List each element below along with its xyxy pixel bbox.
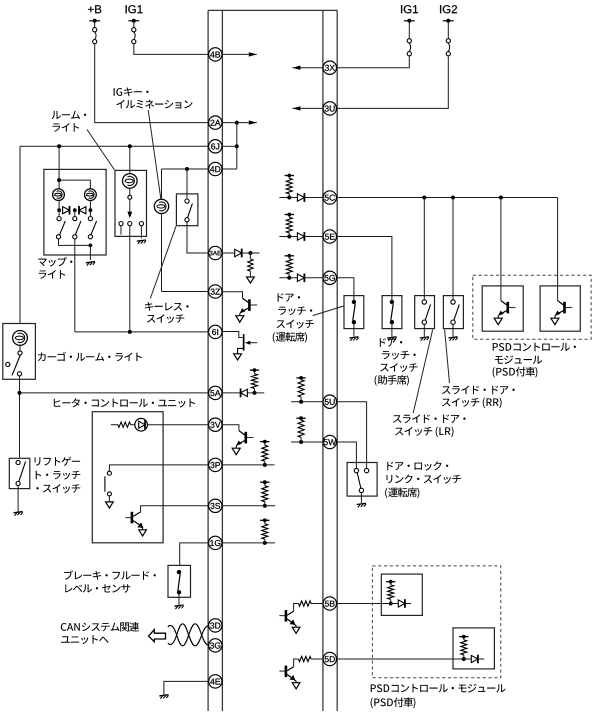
wire +B to 2A xyxy=(95,44,210,123)
slide door switch (LR) contacts xyxy=(422,300,431,337)
label PSD control module (lower) xyxy=(371,684,506,709)
junction block left bus xyxy=(208,10,222,711)
map light bottom wiring xyxy=(59,239,93,260)
label room light xyxy=(52,111,115,170)
IG key illumination lamp xyxy=(154,199,168,213)
room light lamp xyxy=(123,170,138,188)
door latch switch (passenger) box xyxy=(382,296,402,329)
heater transistor open arrow xyxy=(139,530,147,536)
door latch switch (driver) box xyxy=(344,296,364,329)
room light contacts xyxy=(119,222,144,239)
PSD lower unit 1 resistor and diode xyxy=(386,580,411,608)
slide door switch (RR) ground xyxy=(448,337,457,341)
label PSD control module (upper) xyxy=(493,343,576,378)
label door latch switch (driver) xyxy=(273,293,344,343)
label door latch switch (passenger) xyxy=(375,338,418,386)
CAN direction arrow xyxy=(149,630,166,642)
wire 5U row xyxy=(337,402,366,469)
transistor at 3V xyxy=(222,425,253,455)
transistor at 3Z xyxy=(222,292,257,323)
CAN twisted pair wire B xyxy=(168,624,208,646)
cargo room light switch xyxy=(6,345,22,376)
wire lamp to 3Z xyxy=(162,214,210,292)
heater control unit box xyxy=(92,412,163,543)
connector pin 5C xyxy=(323,191,336,204)
label slide door switch (RR) xyxy=(442,330,515,409)
power terminal IG2 xyxy=(440,5,457,56)
connector pin 5B xyxy=(323,597,336,610)
map light switch left xyxy=(56,210,65,239)
label heater control unit xyxy=(54,398,195,407)
3P pullup resistor xyxy=(222,440,274,467)
label map light xyxy=(38,257,72,279)
heater transistor xyxy=(125,506,209,530)
transistor at 6I (PNP) xyxy=(222,332,257,354)
map light switch middle xyxy=(73,210,81,239)
wire 6I row xyxy=(75,330,209,334)
wire 2A-6J-4D jumper xyxy=(222,120,256,169)
map light switch right xyxy=(88,210,96,239)
room light box xyxy=(115,170,147,236)
connector pin 4B xyxy=(209,48,222,61)
connector pin 6J xyxy=(209,140,222,153)
wire 5W row xyxy=(337,442,356,468)
connector pin 5U xyxy=(323,395,336,408)
wire 4E to ground xyxy=(164,681,209,694)
connector pin 5D xyxy=(323,652,336,665)
map light diode right xyxy=(73,201,92,215)
PSD lower unit 2 resistor and diode xyxy=(459,635,484,664)
slide door switch (RR) contacts xyxy=(451,300,460,337)
connector pin 3Z xyxy=(209,285,222,298)
5G pullup and diode xyxy=(279,254,323,282)
power terminal IG1 (right) xyxy=(401,5,418,56)
label brake fluid level sensor xyxy=(64,570,156,593)
slide door switch (LR) ground xyxy=(420,337,429,341)
wire room light to 6I row xyxy=(129,226,131,332)
heater switch open arrow xyxy=(106,502,114,508)
PSD control module (upper) dashed box xyxy=(473,275,591,339)
wire 5B to PSD module xyxy=(337,603,391,605)
connector pin 1G xyxy=(209,536,222,549)
liftgate latch switch box xyxy=(9,458,30,488)
arrow output 4B xyxy=(222,52,256,56)
4E ground xyxy=(159,695,168,699)
label keyless switch xyxy=(145,226,189,323)
door latch switch (driver) contacts xyxy=(352,300,356,337)
keyless switch feed xyxy=(186,169,188,199)
1G pullup resistor xyxy=(222,518,275,545)
liftgate latch switch contacts xyxy=(16,460,26,485)
arrow output 3X xyxy=(292,66,323,70)
door lock link switch contacts xyxy=(354,468,369,503)
5A diode and pullup resistor xyxy=(222,368,264,397)
slide door switch (RR) box xyxy=(443,296,463,329)
wire IG1 to 4B xyxy=(134,44,210,55)
connector pin 3V xyxy=(209,418,222,431)
3AE diode and resistor xyxy=(222,249,259,277)
5U pullup resistor xyxy=(291,376,323,404)
wire 5E row xyxy=(337,237,392,301)
heater LED indicator xyxy=(111,418,209,431)
map light ground xyxy=(86,262,95,266)
wire 5D to PSD module xyxy=(337,658,464,660)
keyless switch contacts xyxy=(185,199,193,222)
door lock link switch box xyxy=(347,463,377,497)
power terminal IG1 (left) xyxy=(126,5,143,44)
5W pullup resistor xyxy=(291,416,323,444)
5E pullup and diode xyxy=(279,213,323,241)
liftgate switch ground xyxy=(14,512,23,516)
connector pin 4D xyxy=(209,162,222,175)
connector pin 4E xyxy=(209,675,222,688)
label liftgate latch switch xyxy=(35,457,81,494)
wire 5A row xyxy=(20,392,210,394)
door latch switch (passenger) contacts xyxy=(390,300,394,337)
label slide door switch (LR) xyxy=(393,330,466,438)
brake fluid sensor ground xyxy=(174,605,183,609)
PSD upper transistor 1 xyxy=(494,301,515,325)
PSD upper unit box 1 xyxy=(482,286,523,331)
door lock link switch ground xyxy=(357,503,366,507)
PSD upper unit box 2 xyxy=(540,286,580,331)
wire IG1 to 3X xyxy=(337,56,410,68)
connector pin 5G xyxy=(323,271,336,284)
brake fluid level sensor contacts xyxy=(177,570,181,605)
CAN twisted pair wire A xyxy=(168,624,208,646)
power terminal +B xyxy=(88,5,101,43)
wire liftgate switch to ground xyxy=(17,486,19,512)
map light lamp right xyxy=(85,189,97,201)
label IG key illumination xyxy=(114,88,193,199)
wire 1G to brake sensor xyxy=(180,543,209,566)
keyless switch box xyxy=(176,194,198,226)
label CAN system units xyxy=(61,622,139,644)
map light diode left xyxy=(57,201,69,215)
cargo room light box xyxy=(3,324,36,380)
door latch switch (driver) ground xyxy=(349,337,358,341)
PSD lower unit box 1 xyxy=(381,574,422,615)
wire IG2 to 3U xyxy=(337,56,449,109)
brake fluid level sensor box xyxy=(168,565,191,597)
5C pullup and diode xyxy=(279,174,323,202)
wire 5G row xyxy=(337,278,354,300)
connector pin 5A xyxy=(209,386,222,399)
map light box xyxy=(44,169,106,255)
junction block right bus xyxy=(323,10,337,711)
connector pin 5E xyxy=(323,230,336,243)
label door lock link switch xyxy=(385,461,461,498)
connector pin 3S xyxy=(209,499,222,512)
connector pin 5W xyxy=(323,435,336,448)
connector pin 3D xyxy=(209,619,222,632)
label cargo room light xyxy=(38,352,142,361)
room light selector xyxy=(127,188,132,218)
junction block top cap xyxy=(208,9,337,11)
wire map light to 6I row xyxy=(74,239,76,332)
wire 4D row xyxy=(162,167,210,199)
wire cargo light to 5A xyxy=(18,376,22,458)
connector pin 3P xyxy=(209,458,222,471)
5B output transistor xyxy=(279,601,323,634)
wire keyless to 3AE xyxy=(187,222,209,253)
wire 6J row xyxy=(20,144,209,323)
PSD lower unit box 2 xyxy=(453,628,494,669)
room light ground xyxy=(137,240,146,244)
map light internal feed xyxy=(57,169,90,188)
slide door switch (LR) box xyxy=(415,296,435,329)
heater switch xyxy=(105,465,209,502)
6I open arrow xyxy=(234,354,242,360)
connector pin 3X xyxy=(323,61,336,74)
3S pullup resistor xyxy=(222,480,275,507)
map light lamp left xyxy=(53,189,65,201)
PSD control module (lower) dashed box xyxy=(372,566,500,678)
PSD upper transistor 2 xyxy=(551,301,572,325)
connector pin 3U xyxy=(323,102,336,115)
connector pin 3G xyxy=(209,639,222,652)
connector pin 2A xyxy=(209,116,222,129)
connector pin 6I xyxy=(209,325,222,338)
5D output transistor xyxy=(279,656,323,689)
cargo room light lamp xyxy=(13,331,28,346)
3AE open arrow xyxy=(247,277,255,283)
connector pin 3AE xyxy=(209,246,222,259)
door latch switch (passenger) ground xyxy=(387,337,396,341)
wire 5C row xyxy=(337,196,557,301)
arrow output 3U xyxy=(292,106,323,110)
